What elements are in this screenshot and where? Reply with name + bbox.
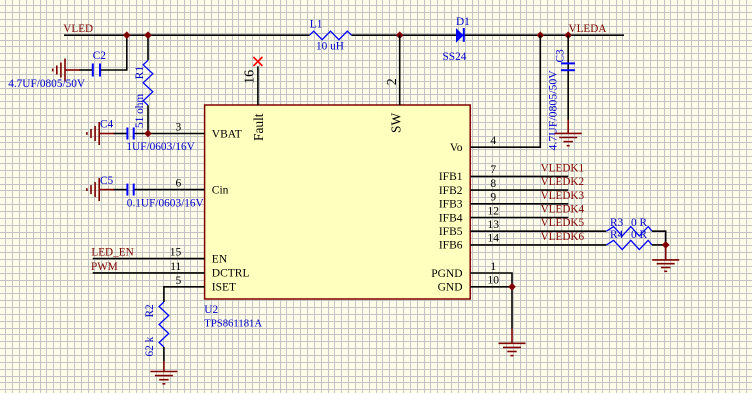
no-ERC marker on pin 16 [253, 57, 262, 66]
capacitor C3 [561, 63, 575, 70]
svg-text:1: 1 [490, 261, 496, 273]
svg-text:62 k: 62 k [144, 336, 156, 356]
svg-text:R1: R1 [134, 66, 146, 79]
svg-text:LED_EN: LED_EN [91, 247, 133, 259]
svg-text:SW: SW [388, 113, 403, 133]
svg-text:8: 8 [490, 178, 496, 190]
pin 11 DCTRL wire [93, 272, 205, 274]
svg-text:13: 13 [488, 219, 500, 231]
svg-text:SS24: SS24 [443, 51, 467, 63]
svg-text:U2: U2 [204, 304, 218, 316]
pin 3 VBAT wire [135, 133, 205, 135]
ground for C2 [53, 59, 80, 82]
svg-text:15: 15 [170, 247, 182, 259]
wire top bus L1 to VLEDA end [352, 34, 625, 36]
pin 1 PGND wire [470, 273, 512, 287]
ground for C5 [87, 178, 114, 201]
capacitor C5 [114, 189, 127, 191]
svg-text:R3: R3 [610, 217, 624, 229]
resistor R4 [607, 240, 653, 249]
svg-text:VLEDK1: VLEDK1 [541, 162, 585, 174]
svg-text:VLEDA: VLEDA [569, 23, 607, 35]
svg-text:VLEDK4: VLEDK4 [541, 204, 585, 216]
svg-text:PGND: PGND [431, 268, 462, 280]
svg-text:VLEDK3: VLEDK3 [541, 190, 585, 202]
pin 8 IFB2 wire [470, 189, 568, 191]
svg-text:IFB5: IFB5 [439, 226, 463, 238]
pin 10 GND wire [470, 287, 512, 329]
ground for PGND/GND [499, 329, 526, 356]
junction at VBAT/C4/R1 [144, 130, 152, 138]
svg-text:4: 4 [490, 135, 496, 147]
resistor R1 [147, 35, 149, 60]
ground for C3 [555, 120, 582, 146]
pin 15 EN wire [93, 258, 205, 260]
svg-text:L1: L1 [310, 18, 323, 30]
pin 16 Fault [257, 66, 259, 105]
junction at R3/R4 [662, 241, 670, 249]
junction on top bus at Vo riser [537, 31, 545, 39]
svg-text:7: 7 [490, 164, 496, 176]
svg-text:ISET: ISET [212, 282, 236, 294]
ground for C4 [87, 122, 114, 145]
svg-text:VLEDK6: VLEDK6 [541, 231, 585, 243]
svg-text:6: 6 [176, 178, 182, 190]
svg-text:4.7UF/0805/50V: 4.7UF/0805/50V [8, 78, 86, 90]
svg-text:12: 12 [488, 205, 500, 217]
junction at PGND/GND [508, 283, 516, 291]
wire C2 branch riser [101, 35, 127, 70]
svg-text:16: 16 [242, 70, 257, 84]
pin 9 IFB3 wire [470, 203, 568, 205]
svg-text:IFB6: IFB6 [439, 240, 463, 252]
pin 13 IFB5 wire [470, 230, 606, 232]
svg-text:10 uH: 10 uH [316, 41, 344, 53]
resistor R2 [159, 302, 169, 347]
pin 12 IFB4 wire [470, 217, 568, 219]
pin 6 Cin wire [135, 189, 205, 191]
wire C2 left lead [79, 69, 92, 71]
svg-text:Vo: Vo [450, 142, 463, 154]
svg-text:IFB1: IFB1 [439, 171, 463, 183]
IC U2 body [205, 105, 471, 299]
capacitor C2 [93, 64, 100, 77]
svg-text:1UF/0603/16V: 1UF/0603/16V [126, 141, 195, 153]
svg-text:14: 14 [488, 233, 500, 245]
svg-text:VBAT: VBAT [212, 128, 242, 140]
junction on top bus at C3 branch [564, 31, 572, 39]
svg-text:11: 11 [170, 261, 181, 273]
svg-text:4.7UF/0805/50V: 4.7UF/0805/50V [546, 70, 560, 151]
svg-text:IFB3: IFB3 [439, 199, 463, 211]
diode D1 [456, 28, 464, 43]
svg-text:EN: EN [212, 253, 228, 265]
junction on top bus at SW pin [396, 31, 404, 39]
junction on top bus at C2 branch [123, 31, 131, 39]
svg-text:IFB2: IFB2 [439, 185, 463, 197]
svg-text:C5: C5 [100, 175, 114, 187]
svg-text:VLEDK5: VLEDK5 [541, 217, 585, 229]
pin 4 Vo wire [470, 35, 540, 147]
svg-text:10: 10 [488, 275, 500, 287]
capacitor C3 branch wire [567, 35, 569, 119]
svg-text:2: 2 [385, 78, 400, 85]
svg-text:PWM: PWM [91, 261, 118, 273]
svg-text:C3: C3 [555, 49, 567, 63]
svg-text:C4: C4 [100, 118, 114, 130]
svg-text:GND: GND [438, 282, 463, 294]
svg-text:5: 5 [176, 275, 182, 287]
svg-text:Cin: Cin [212, 184, 229, 196]
svg-text:DCTRL: DCTRL [212, 268, 250, 280]
svg-text:0 R: 0 R [631, 217, 647, 229]
svg-text:Fault: Fault [251, 113, 266, 141]
svg-text:VLED: VLED [63, 23, 93, 35]
svg-text:51 ohm: 51 ohm [134, 94, 146, 128]
svg-text:IFB4: IFB4 [439, 212, 463, 224]
svg-text:R4: R4 [610, 229, 624, 241]
svg-text:VLEDK2: VLEDK2 [541, 176, 585, 188]
svg-text:C2: C2 [93, 50, 107, 62]
svg-text:0.1UF/0603/16V: 0.1UF/0603/16V [127, 197, 205, 209]
svg-text:3: 3 [176, 122, 182, 134]
svg-text:D1: D1 [456, 16, 470, 28]
svg-text:0 R: 0 R [631, 229, 647, 241]
junction on top bus at R1 branch [144, 31, 152, 39]
svg-text:TPS861181A: TPS861181A [204, 317, 262, 329]
pin 7 IFB1 wire [470, 175, 568, 177]
svg-text:9: 9 [490, 192, 496, 204]
pin 5 ISET wire [164, 287, 205, 302]
svg-text:R2: R2 [144, 304, 156, 318]
wire top bus VLED to L1 [64, 34, 310, 36]
capacitor C4 [114, 133, 127, 135]
ground for R2 [150, 361, 177, 384]
pin 14 IFB6 wire [470, 244, 606, 246]
pin 2 SW [399, 35, 401, 105]
ground for R3/R4 [652, 245, 679, 271]
inductor L1 [310, 31, 352, 40]
resistor R3 [607, 227, 653, 236]
